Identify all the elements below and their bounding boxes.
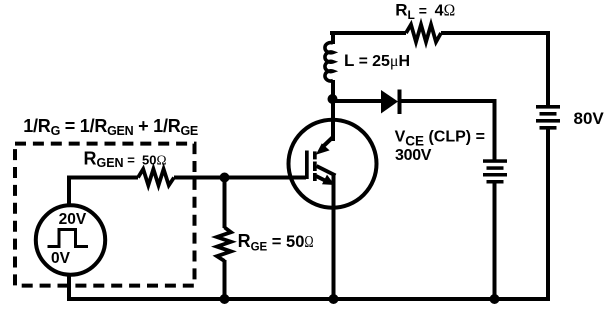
svg-text:RGEN = 50Ω: RGEN = 50Ω — [84, 148, 167, 170]
wire generator top vertical — [67, 176, 71, 205]
transistor Q1 emitter arrowhead — [322, 175, 335, 185]
battery 80V bar 4 — [540, 126, 557, 130]
diode D1 triangle — [381, 90, 398, 114]
wire top rail left — [330, 31, 406, 35]
wire bottom rail — [67, 297, 550, 301]
dashed box 1/RG — [15, 144, 195, 286]
wire top rail right — [441, 31, 550, 35]
battery 80V bar 1 — [536, 105, 560, 109]
clamp battery bar 4 — [487, 180, 504, 184]
diode D1 cathode bar — [398, 90, 402, 115]
resistor RL zigzag — [406, 25, 441, 43]
junction dot clamp bottom — [490, 294, 500, 304]
transistor Q1 gate bar — [305, 151, 309, 180]
transistor Q1 body bar segment 1 — [313, 151, 317, 159]
svg-text:20V: 20V — [59, 211, 87, 228]
junction dot gate node — [220, 173, 230, 183]
transistor Q1 middle slant — [317, 166, 336, 176]
junction dot emitter bottom — [329, 294, 339, 304]
generator V1 pulse waveform — [48, 230, 89, 247]
wire diode branch left — [333, 99, 382, 103]
wire RGE vertical upper — [223, 178, 227, 229]
svg-text:300V: 300V — [395, 147, 432, 164]
svg-text:L = 25μH: L = 25μH — [344, 51, 410, 70]
transistor Q1 circle — [289, 120, 377, 208]
wire right vertical upper — [546, 33, 550, 106]
battery 80V bar 2 — [540, 112, 557, 116]
transistor Q1 body bar segment 2 — [313, 162, 317, 172]
svg-text:RGE = 50Ω: RGE = 50Ω — [238, 231, 314, 254]
transistor Q1 emitter slant — [316, 176, 325, 181]
wire clamp vertical lower — [493, 184, 497, 300]
clamp battery bar 2 — [487, 166, 504, 170]
wire generator bottom vertical — [67, 276, 71, 299]
svg-text:80V: 80V — [574, 109, 605, 128]
junction dot RGE bottom — [220, 294, 230, 304]
wire inductor stub top — [331, 31, 335, 44]
wire gate horizontal right — [174, 176, 306, 180]
junction dot collector node — [328, 94, 338, 104]
generator V1 circle — [36, 205, 105, 274]
wire diode branch right — [400, 99, 497, 103]
wire RGE vertical lower — [223, 260, 227, 299]
resistor RGEN zigzag — [138, 169, 174, 185]
transistor Q1 body bar segment 3 — [313, 173, 317, 181]
clamp battery bar 1 — [483, 159, 507, 163]
wire right vertical lower — [546, 129, 550, 300]
wire collector vertical — [331, 80, 335, 141]
inductor L1 coil — [325, 43, 333, 81]
resistor RGE zigzag — [217, 227, 231, 261]
wire emitter vertical — [332, 175, 336, 299]
transistor Q1 collector arrowhead — [316, 143, 330, 154]
clamp battery bar 3 — [483, 173, 507, 177]
battery 80V bar 3 — [536, 119, 560, 123]
wire gate horizontal left — [67, 176, 138, 180]
transistor Q1 collector slant — [322, 137, 333, 148]
wire clamp vertical upper — [493, 101, 497, 160]
svg-text:0V: 0V — [51, 250, 71, 267]
